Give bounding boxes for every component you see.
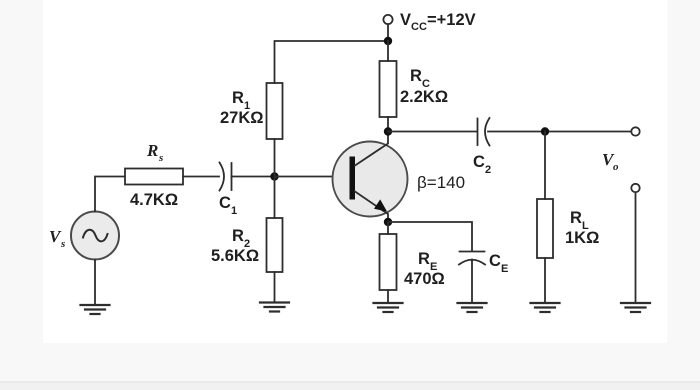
svg-text:2.2KΩ: 2.2KΩ [400,88,448,106]
label C1 [219,194,237,217]
wire collector to C2 [388,131,477,133]
wire Rs to C1 [183,176,219,178]
voltage source VS [71,212,119,260]
label VCC=+12V [400,11,476,33]
label CE [489,252,508,275]
node emitter junction [384,218,392,226]
svg-text:C: C [219,194,231,212]
svg-text:R: R [410,67,422,85]
resistor R2 [267,218,283,272]
value 1K ohm [565,229,599,247]
label R2 [232,227,250,250]
svg-text:s: s [158,152,163,164]
ground (RE) [374,303,403,312]
value 470 ohm [404,270,445,288]
transistor Q1 [333,132,408,223]
output terminal top [631,127,639,135]
wire CE to ground [471,260,473,304]
wire output node to RL [544,132,546,200]
capacitor C1 [220,163,232,191]
svg-text:1: 1 [231,205,237,217]
resistor R1 [267,83,283,139]
wire emitter node to CE [388,222,472,251]
label RC [410,67,430,90]
svg-text:E: E [501,263,508,275]
resistor RC [380,61,397,117]
svg-text:R: R [232,89,244,107]
node output junction [541,127,549,135]
svg-text:4.7KΩ: 4.7KΩ [130,191,178,209]
svg-text:s: s [60,238,65,250]
svg-text:R: R [146,141,158,160]
wire RE bottom to ground [387,290,389,303]
ground (RL) [531,303,560,312]
label beta=140 [417,173,465,192]
svg-text:1KΩ: 1KΩ [565,229,599,247]
label C2 [473,153,491,176]
svg-text:β=140: β=140 [417,173,465,192]
capacitor CE [459,252,485,265]
wire C1 to base node [232,176,275,178]
wire output terminal bottom to ground [635,192,637,303]
wire C2 to output node [488,131,632,133]
node base junction [270,172,278,180]
wire Vs top to Rs [95,177,125,212]
label R1 [232,89,250,112]
output terminal bottom [631,184,639,192]
value 4.7K ohm [130,191,178,209]
wire RL bottom to ground [544,258,546,303]
wire R1 top [275,41,389,83]
wire Vcc node to RC [387,41,389,61]
node collector junction [384,127,392,135]
svg-text:R: R [232,227,244,245]
node Vcc junction [384,37,392,45]
ground (Vs) [81,305,110,314]
svg-text:2: 2 [485,164,491,176]
svg-text:o: o [613,161,619,173]
capacitor C2 [478,118,490,146]
wire base node to R2 [274,177,276,219]
wire Vcc terminal down [387,24,389,41]
wire base node to transistor [275,176,352,178]
label VS [49,227,65,250]
svg-text:5.6KΩ: 5.6KΩ [211,247,259,265]
svg-text:=+12V: =+12V [427,11,476,29]
label RS [146,141,163,164]
svg-text:R: R [570,209,582,227]
resistor RS [125,169,183,185]
label RL [570,209,589,232]
wire RC to collector node [387,117,389,132]
value 5.6K ohm [211,247,259,265]
value 27K ohm [220,109,264,127]
svg-text:V: V [400,11,411,29]
svg-text:CC: CC [411,21,427,33]
svg-text:470Ω: 470Ω [404,270,445,288]
svg-text:27KΩ: 27KΩ [220,109,264,127]
value 2.2K ohm [400,88,448,106]
ground (R2) [260,303,289,312]
resistor RE [380,234,397,290]
wire R2 bottom to ground [274,272,276,303]
ground (CE) [458,303,487,312]
label VO [602,150,619,173]
svg-text:C: C [473,153,485,171]
wire R1 bottom to base node [274,139,276,177]
wire emitter node to RE [387,222,389,234]
svg-text:C: C [489,252,501,270]
Vcc terminal [383,15,392,24]
ground (output) [621,303,650,312]
wire Vs bottom to ground [94,260,96,306]
label RE [418,250,437,273]
resistor RL [537,199,553,258]
svg-text:R: R [418,250,430,268]
